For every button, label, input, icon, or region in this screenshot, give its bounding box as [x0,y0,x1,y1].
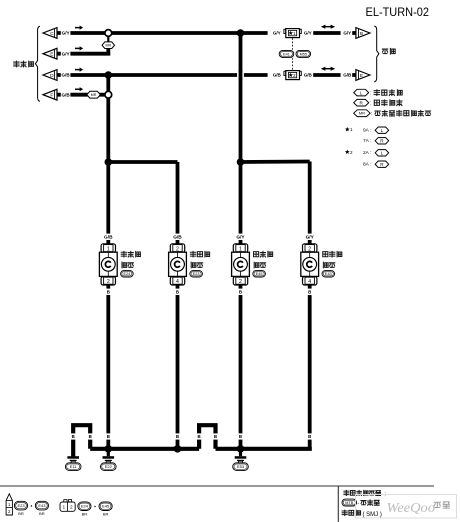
svg-text:B: B [107,434,110,439]
svg-text:4: 4 [176,279,179,285]
svg-text:BR: BR [103,511,109,516]
svg-text:E23: E23 [193,272,200,276]
svg-text:MR: MR [359,111,365,116]
svg-text:9A :: 9A : [363,127,371,133]
svg-text:G/B: G/B [62,73,71,78]
svg-text:B: B [214,434,217,439]
svg-text:E: E [50,52,53,58]
svg-text:E: E [360,73,363,79]
svg-text:E11: E11 [70,464,78,469]
svg-text:1: 1 [239,246,242,252]
svg-text:E23: E23 [17,503,25,508]
svg-text:BR: BR [39,511,45,516]
svg-text:E24: E24 [124,272,131,276]
svg-text:B: B [176,290,179,295]
svg-text:BR: BR [82,511,88,516]
svg-text:2: 2 [350,150,353,155]
svg-text::: : [371,111,372,117]
svg-text:G/Y: G/Y [306,235,315,241]
svg-text:8A :: 8A : [363,161,371,167]
svg-text:4: 4 [308,279,311,285]
svg-text:G/B: G/B [62,92,71,97]
svg-text:B: B [239,434,242,439]
svg-text:F: F [50,93,53,99]
svg-text:1: 1 [350,127,353,132]
svg-text:1: 1 [107,246,110,252]
svg-text:E53: E53 [237,464,245,469]
svg-text:2: 2 [107,279,110,285]
svg-text:C: C [50,31,54,37]
svg-text:E45: E45 [102,504,110,509]
svg-text:B: B [89,434,92,439]
svg-text:MR: MR [106,43,112,47]
svg-text:G/Y: G/Y [343,31,351,36]
svg-text:MTB: MTB [345,501,353,505]
svg-text:MR: MR [91,93,97,97]
svg-text:WeeQoo: WeeQoo [387,501,436,516]
svg-text:B: B [308,290,311,295]
svg-text:7A :: 7A : [363,138,371,144]
svg-text:G/B: G/B [173,235,182,241]
svg-text:D: D [50,73,54,79]
svg-text:G/B: G/B [273,73,282,78]
svg-text:E24: E24 [81,504,89,509]
svg-text:B: B [360,31,363,37]
svg-text:2: 2 [176,246,179,252]
svg-text:E41: E41 [283,52,290,56]
svg-text:G/B: G/B [304,73,313,78]
svg-text:B: B [176,434,179,439]
svg-text:G/Y: G/Y [273,31,281,36]
svg-text:G/Y: G/Y [236,235,245,241]
svg-text:G/B: G/B [104,235,113,241]
svg-text:E43: E43 [38,503,46,508]
svg-text:2: 2 [239,279,242,285]
svg-text:L: L [381,128,384,133]
svg-text:L: L [360,90,363,95]
svg-text:G/B: G/B [343,73,352,78]
svg-text:E22: E22 [105,464,113,469]
svg-text:G/Y: G/Y [304,31,312,36]
svg-text:B: B [239,290,242,295]
svg-text:2A :: 2A : [363,150,371,156]
svg-text:E43: E43 [325,272,332,276]
svg-text:B: B [107,290,110,295]
svg-text:( SMJ ): ( SMJ ) [363,512,382,518]
svg-text:B: B [72,434,75,439]
svg-text:G/Y: G/Y [62,51,70,56]
svg-text:B: B [198,434,201,439]
svg-text:G/Y: G/Y [62,31,70,36]
svg-text:M55: M55 [300,52,307,56]
svg-text:2: 2 [308,246,311,252]
svg-text::: : [370,90,371,96]
svg-text::: : [370,101,371,107]
svg-text:B: B [308,434,311,439]
svg-text:L: L [381,150,384,155]
svg-text:E45: E45 [256,272,263,276]
svg-text:-: - [358,501,360,507]
svg-text:BR: BR [18,511,24,516]
svg-text:EL-TURN-02: EL-TURN-02 [366,5,430,19]
